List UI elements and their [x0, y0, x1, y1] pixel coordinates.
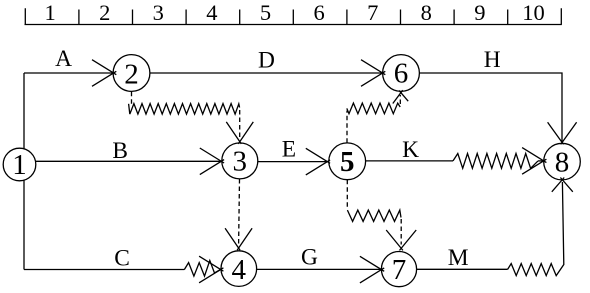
arrowhead into node 7 top [386, 230, 416, 250]
svg-text:2: 2 [124, 59, 139, 91]
node 4 [221, 251, 257, 287]
arrowhead into node 5 [306, 148, 330, 175]
node 5 [329, 143, 366, 180]
svg-text:K: K [402, 137, 419, 163]
svg-text:A: A [55, 46, 72, 72]
svg-text:1: 1 [12, 149, 27, 181]
svg-text:E: E [282, 137, 296, 163]
svg-text:1: 1 [44, 0, 55, 25]
arrow A shaft [24, 72, 114, 74]
time scale numbers 1-10 [44, 0, 544, 25]
svg-text:6: 6 [394, 58, 409, 90]
arrow C shaft [24, 269, 184, 271]
dashed drop to node 3 [239, 110, 241, 139]
svg-text:10: 10 [522, 0, 545, 25]
arrow B shaft [36, 160, 222, 162]
arrowhead into node 4 left [199, 256, 223, 283]
svg-text:D: D [258, 48, 275, 74]
dashed drop from node 5 [346, 180, 348, 210]
arrowhead into node 8 bottom [552, 178, 573, 192]
svg-text:B: B [112, 138, 128, 164]
svg-text:4: 4 [232, 254, 247, 286]
dashed drop from node 2 [131, 92, 133, 105]
dashed drop from node 3 to node 4 [238, 179, 241, 245]
arrow K shaft [365, 160, 453, 162]
time scale baseline [25, 24, 562, 26]
dashed riser to node 6 [399, 95, 401, 104]
arrowhead into node 3 [200, 148, 224, 175]
arrow M shaft [416, 268, 507, 270]
svg-text:M: M [448, 245, 469, 271]
svg-text:H: H [484, 47, 501, 73]
slack zigzag on M and wire up to node 8 [508, 182, 564, 276]
arrow D shaft [150, 72, 383, 74]
arrowhead into node 8 top [548, 122, 577, 144]
node 1 [3, 148, 36, 181]
svg-text:9: 9 [474, 0, 485, 25]
svg-text:C: C [114, 246, 130, 272]
svg-text:3: 3 [153, 0, 164, 25]
svg-text:6: 6 [313, 0, 324, 25]
svg-text:5: 5 [260, 0, 271, 25]
K tail to node 8 [538, 160, 544, 162]
slack zigzag under node 6 [347, 103, 400, 114]
arrow E shaft [258, 161, 328, 163]
arrowhead into node 3 top [226, 122, 253, 144]
node 3 [222, 143, 258, 179]
arrowhead into node 8 left [522, 148, 546, 175]
svg-text:8: 8 [421, 0, 432, 25]
svg-text:8: 8 [555, 146, 570, 178]
svg-text:7: 7 [392, 254, 407, 286]
arrowhead into node 6 bottom [393, 90, 408, 103]
svg-text:4: 4 [206, 0, 217, 25]
dashed riser from node 5 top [346, 111, 348, 143]
arrowhead into node 7 [360, 256, 384, 283]
svg-text:7: 7 [367, 0, 378, 25]
node 2 [113, 55, 150, 92]
arrow G shaft [257, 268, 382, 270]
arrowhead into node 4 top [225, 228, 252, 250]
slack zigzag above node 7 [347, 210, 401, 221]
slack zigzag on C [184, 261, 220, 277]
node 8 [544, 143, 581, 180]
node 7 [381, 252, 416, 287]
slack zigzag on K [453, 154, 538, 169]
svg-text:3: 3 [233, 146, 248, 178]
dashed drop to node 7 [400, 219, 402, 245]
arrowhead into node 2 [92, 60, 116, 87]
svg-text:5: 5 [340, 146, 355, 178]
arrowhead into node 6 [361, 60, 385, 87]
node 6 [383, 55, 420, 92]
arrow H shaft [419, 73, 562, 143]
slack zigzag under D [129, 104, 240, 115]
svg-text:G: G [301, 244, 318, 270]
svg-text:2: 2 [99, 0, 110, 25]
wire node1 down to C row [23, 180, 25, 269]
time scale tick marks [25, 8, 561, 24]
wire node1 up to A row [23, 73, 25, 149]
